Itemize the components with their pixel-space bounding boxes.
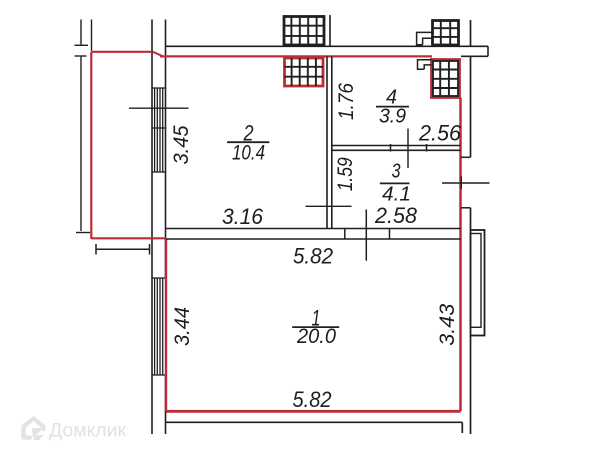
red boundary top segment <box>160 55 432 57</box>
leader for 3.45 <box>129 107 189 109</box>
leader for 1.59 <box>306 205 352 207</box>
svg-text:3.44: 3.44 <box>171 307 194 346</box>
top building wall outer line <box>166 45 489 47</box>
red boundary left vertical <box>90 52 92 239</box>
svg-text:20.0: 20.0 <box>296 325 336 348</box>
red boundary room1 left vertical <box>165 238 167 411</box>
vent box B1 (top-center, black) <box>284 17 324 46</box>
left outer wall <box>152 20 166 435</box>
svg-text:3: 3 <box>392 161 401 183</box>
vent box B2 (red bordered, top-center) <box>285 58 324 86</box>
svg-text:3.16: 3.16 <box>222 204 264 229</box>
svg-text:3.43: 3.43 <box>436 303 459 345</box>
svg-text:Домклик: Домклик <box>49 421 127 442</box>
vent shaft stub line <box>329 15 331 46</box>
interior wall room4|room3 (double) <box>332 146 461 151</box>
red boundary right vertical <box>459 98 462 412</box>
vent box B4 (red bordered, top-right) <box>432 60 460 98</box>
bottom outer wall stub <box>461 422 463 433</box>
interior wall room2|room4 (double) <box>327 56 332 229</box>
ticks on wall room|room1 <box>345 229 390 240</box>
svg-text:3.45: 3.45 <box>170 125 193 164</box>
svg-text:1.59: 1.59 <box>334 157 357 191</box>
right building wall <box>470 20 472 434</box>
window W2 in left wall (lower, room 1) <box>152 278 167 375</box>
svg-text:3.9: 3.9 <box>379 106 406 128</box>
svg-text:4.1: 4.1 <box>382 184 411 206</box>
svg-text:2.56: 2.56 <box>418 121 462 146</box>
niche bracket below (next to B4) <box>418 60 432 69</box>
door opening leader <box>442 182 490 184</box>
svg-text:2.58: 2.58 <box>374 203 418 228</box>
svg-text:5.82: 5.82 <box>293 387 332 412</box>
vent box B3 (top-right, black) <box>433 21 459 46</box>
extension line for 2.56 <box>407 129 409 169</box>
red boundary bottom <box>166 410 461 413</box>
extension line below 2.58 <box>365 210 367 261</box>
top wall right stub lower line <box>461 55 488 57</box>
svg-text:1.76: 1.76 <box>335 83 358 120</box>
small dimension bracket left <box>96 244 150 255</box>
red boundary jog through wall <box>153 52 163 57</box>
red boundary mid horizontal <box>91 237 166 239</box>
window W1 in left wall (upper, room 2) <box>152 88 167 172</box>
ticks on wall room4|room3 <box>391 144 427 152</box>
extension line top-left corner <box>91 20 93 52</box>
red apartment boundary: top-left segment <box>91 51 152 53</box>
watermark logo fold <box>32 428 44 439</box>
svg-text:5.82: 5.82 <box>293 244 333 269</box>
bottom outer wall line <box>166 421 462 423</box>
interior wall rooms2,3|room1 (double) <box>166 229 461 240</box>
top wall right stub end cap <box>487 46 489 56</box>
niche bracket above (next to B3) <box>417 32 432 44</box>
watermark logo house <box>24 419 44 438</box>
svg-text:10.4: 10.4 <box>232 142 265 165</box>
window W3 in right wall (room 1) <box>471 230 485 336</box>
outer left dimension line <box>75 20 91 233</box>
doorway ticks on right wall <box>461 157 471 208</box>
